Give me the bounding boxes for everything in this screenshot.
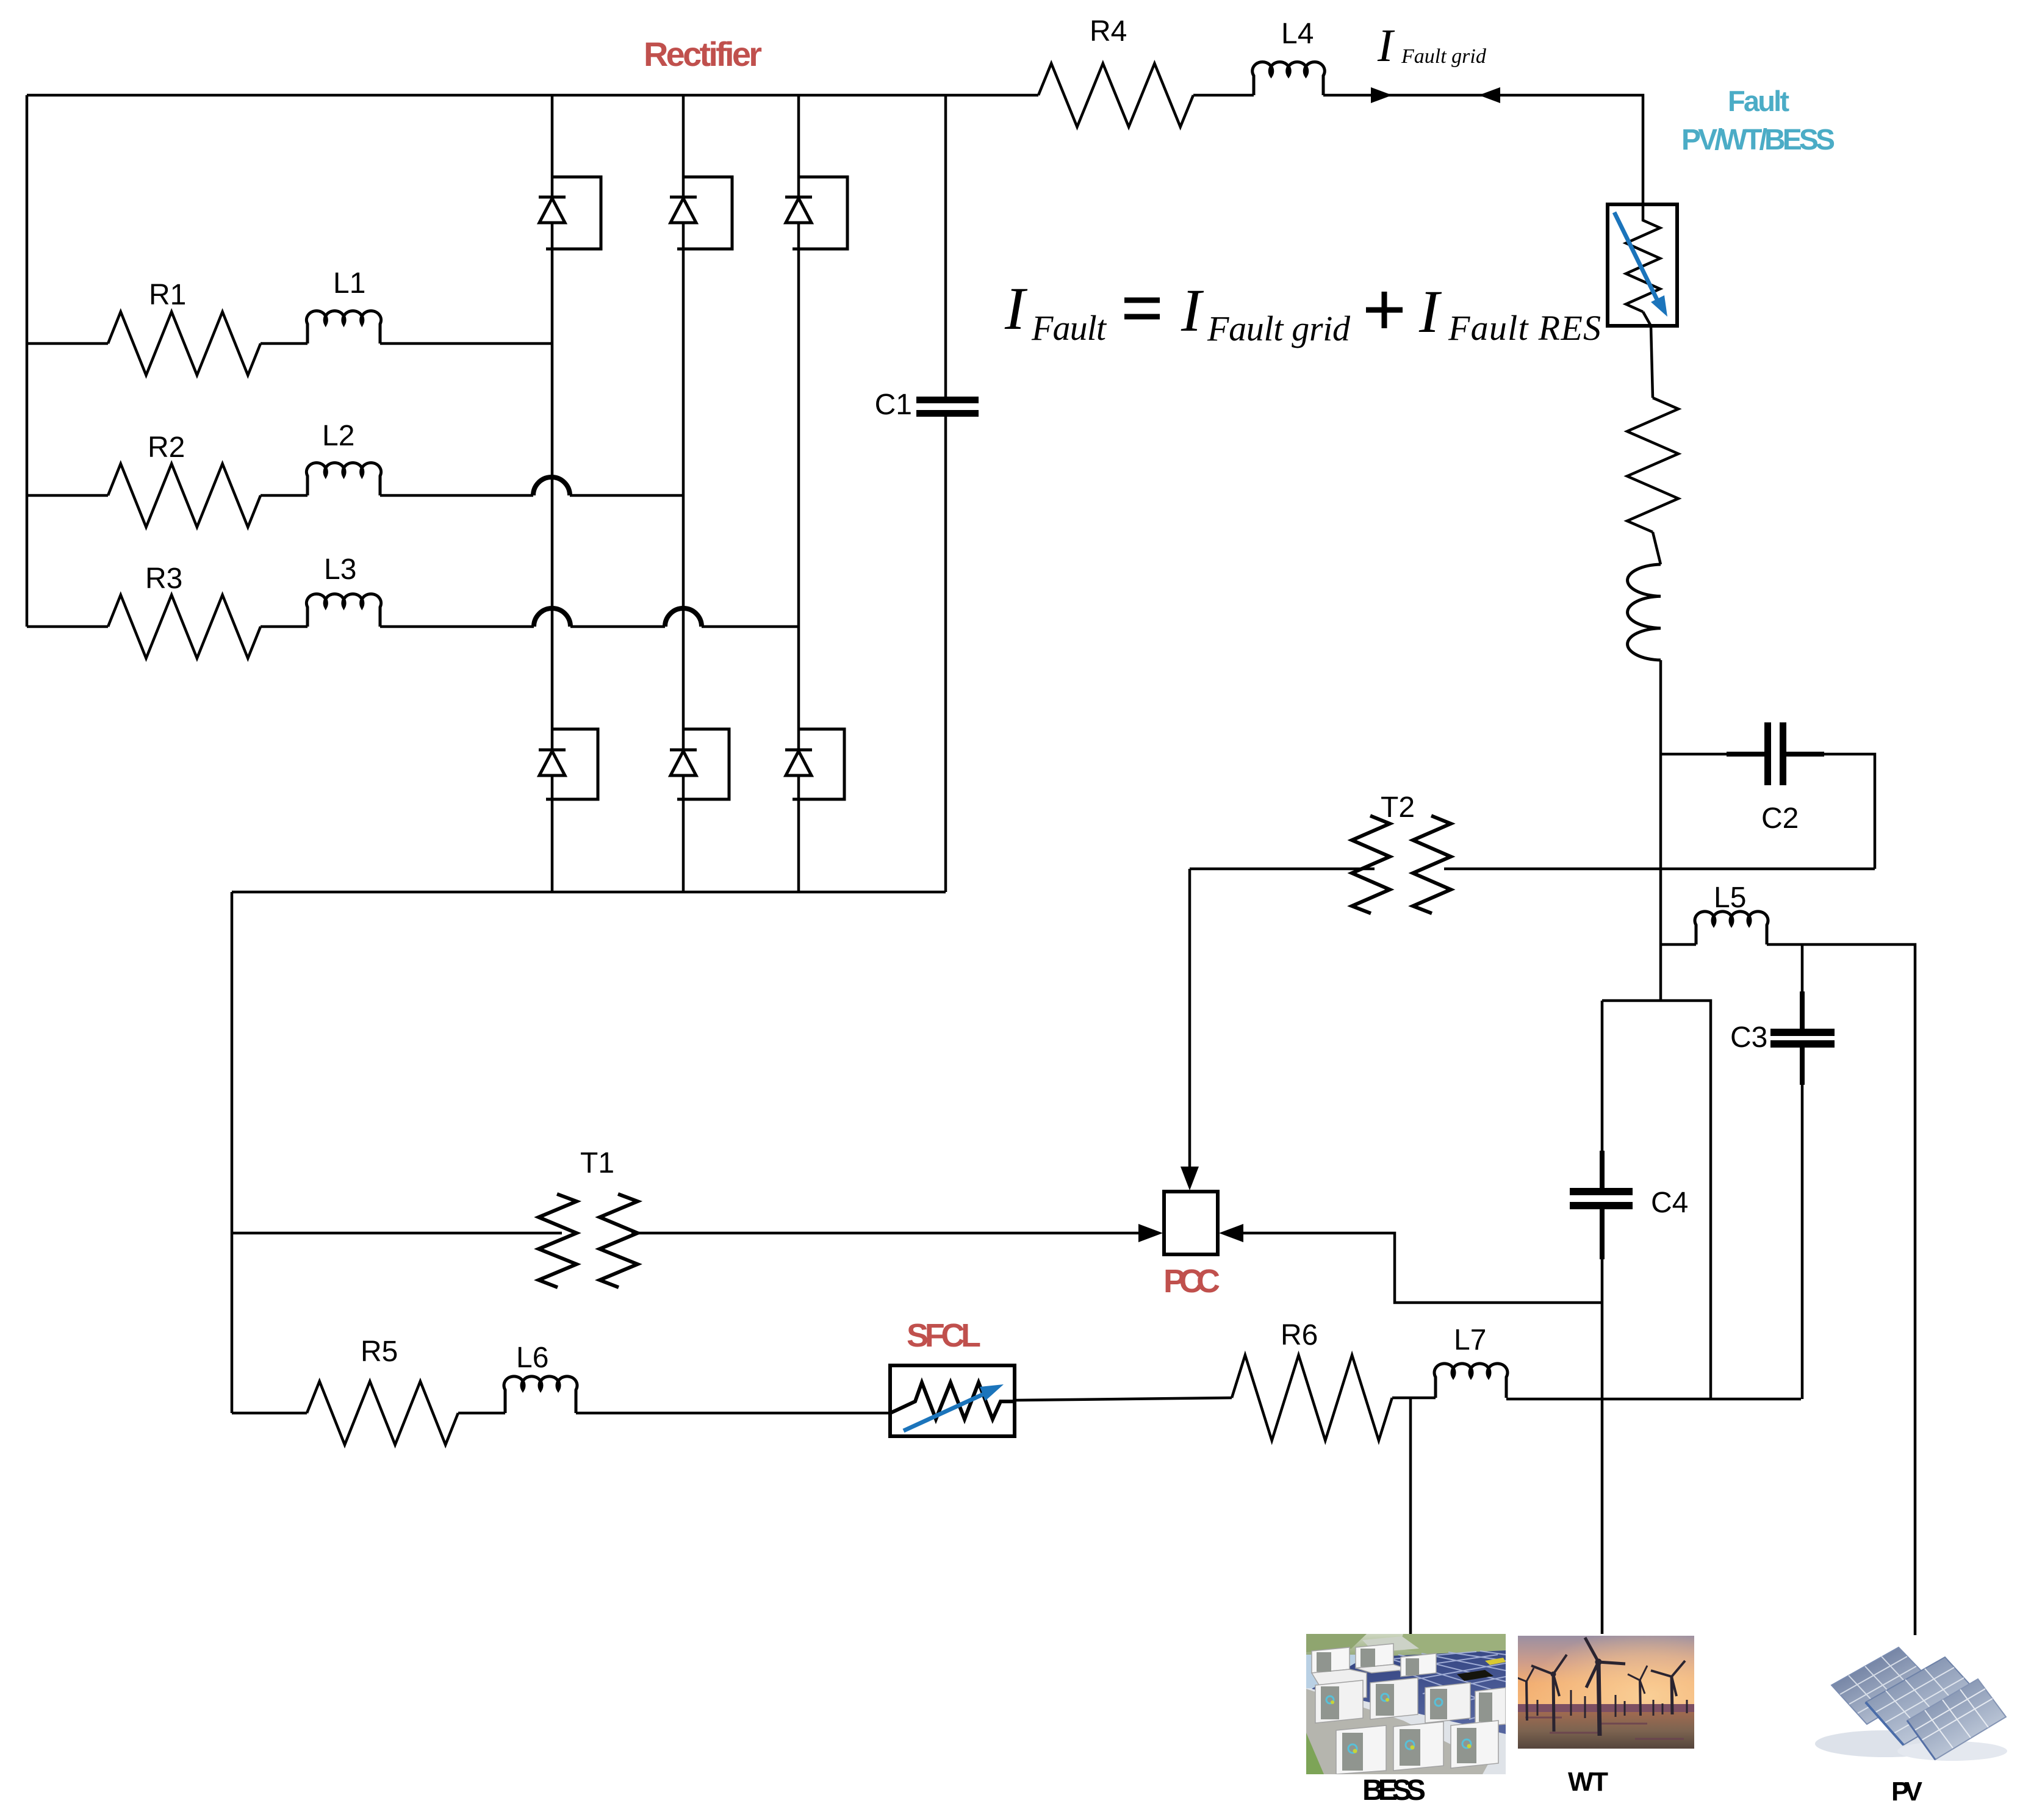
svg-text:I: I [1004, 275, 1028, 342]
svg-text:BESS: BESS [1362, 1774, 1426, 1807]
svg-text:L1: L1 [333, 267, 365, 300]
svg-text:SFCL: SFCL [907, 1317, 981, 1354]
svg-text:PV/WT/BESS: PV/WT/BESS [1681, 124, 1835, 156]
svg-text:L2: L2 [322, 420, 354, 452]
svg-text:Fault RES: Fault RES [1448, 308, 1601, 348]
svg-text:R2: R2 [148, 431, 185, 464]
svg-text:Fault grid: Fault grid [1207, 309, 1351, 348]
svg-text:C2: C2 [1761, 802, 1799, 835]
svg-text:C3: C3 [1730, 1021, 1767, 1054]
svg-text:L7: L7 [1454, 1324, 1486, 1356]
svg-text:Fault: Fault [1728, 85, 1789, 117]
svg-text:R1: R1 [149, 279, 186, 311]
svg-text:Rectifier: Rectifier [644, 35, 762, 73]
svg-text:R6: R6 [1281, 1319, 1318, 1351]
svg-text:WT: WT [1568, 1767, 1608, 1797]
svg-text:I: I [1377, 20, 1395, 71]
svg-text:I: I [1181, 276, 1204, 344]
svg-text:Fault: Fault [1031, 308, 1107, 348]
svg-text:L4: L4 [1281, 18, 1314, 50]
svg-text:C1: C1 [875, 389, 912, 421]
svg-text:L3: L3 [324, 553, 356, 586]
svg-text:PV: PV [1891, 1777, 1923, 1807]
svg-text:PCC: PCC [1163, 1263, 1220, 1300]
svg-text:Fault grid: Fault grid [1401, 45, 1487, 68]
svg-text:R5: R5 [361, 1336, 398, 1368]
svg-text:R4: R4 [1090, 15, 1127, 48]
svg-text:T1: T1 [580, 1147, 614, 1179]
svg-text:R3: R3 [145, 563, 182, 595]
svg-text:L5: L5 [1714, 882, 1746, 914]
svg-text:T2: T2 [1381, 791, 1415, 824]
svg-text:I: I [1418, 278, 1442, 345]
svg-text:C4: C4 [1651, 1187, 1688, 1219]
svg-text:L6: L6 [516, 1342, 548, 1374]
